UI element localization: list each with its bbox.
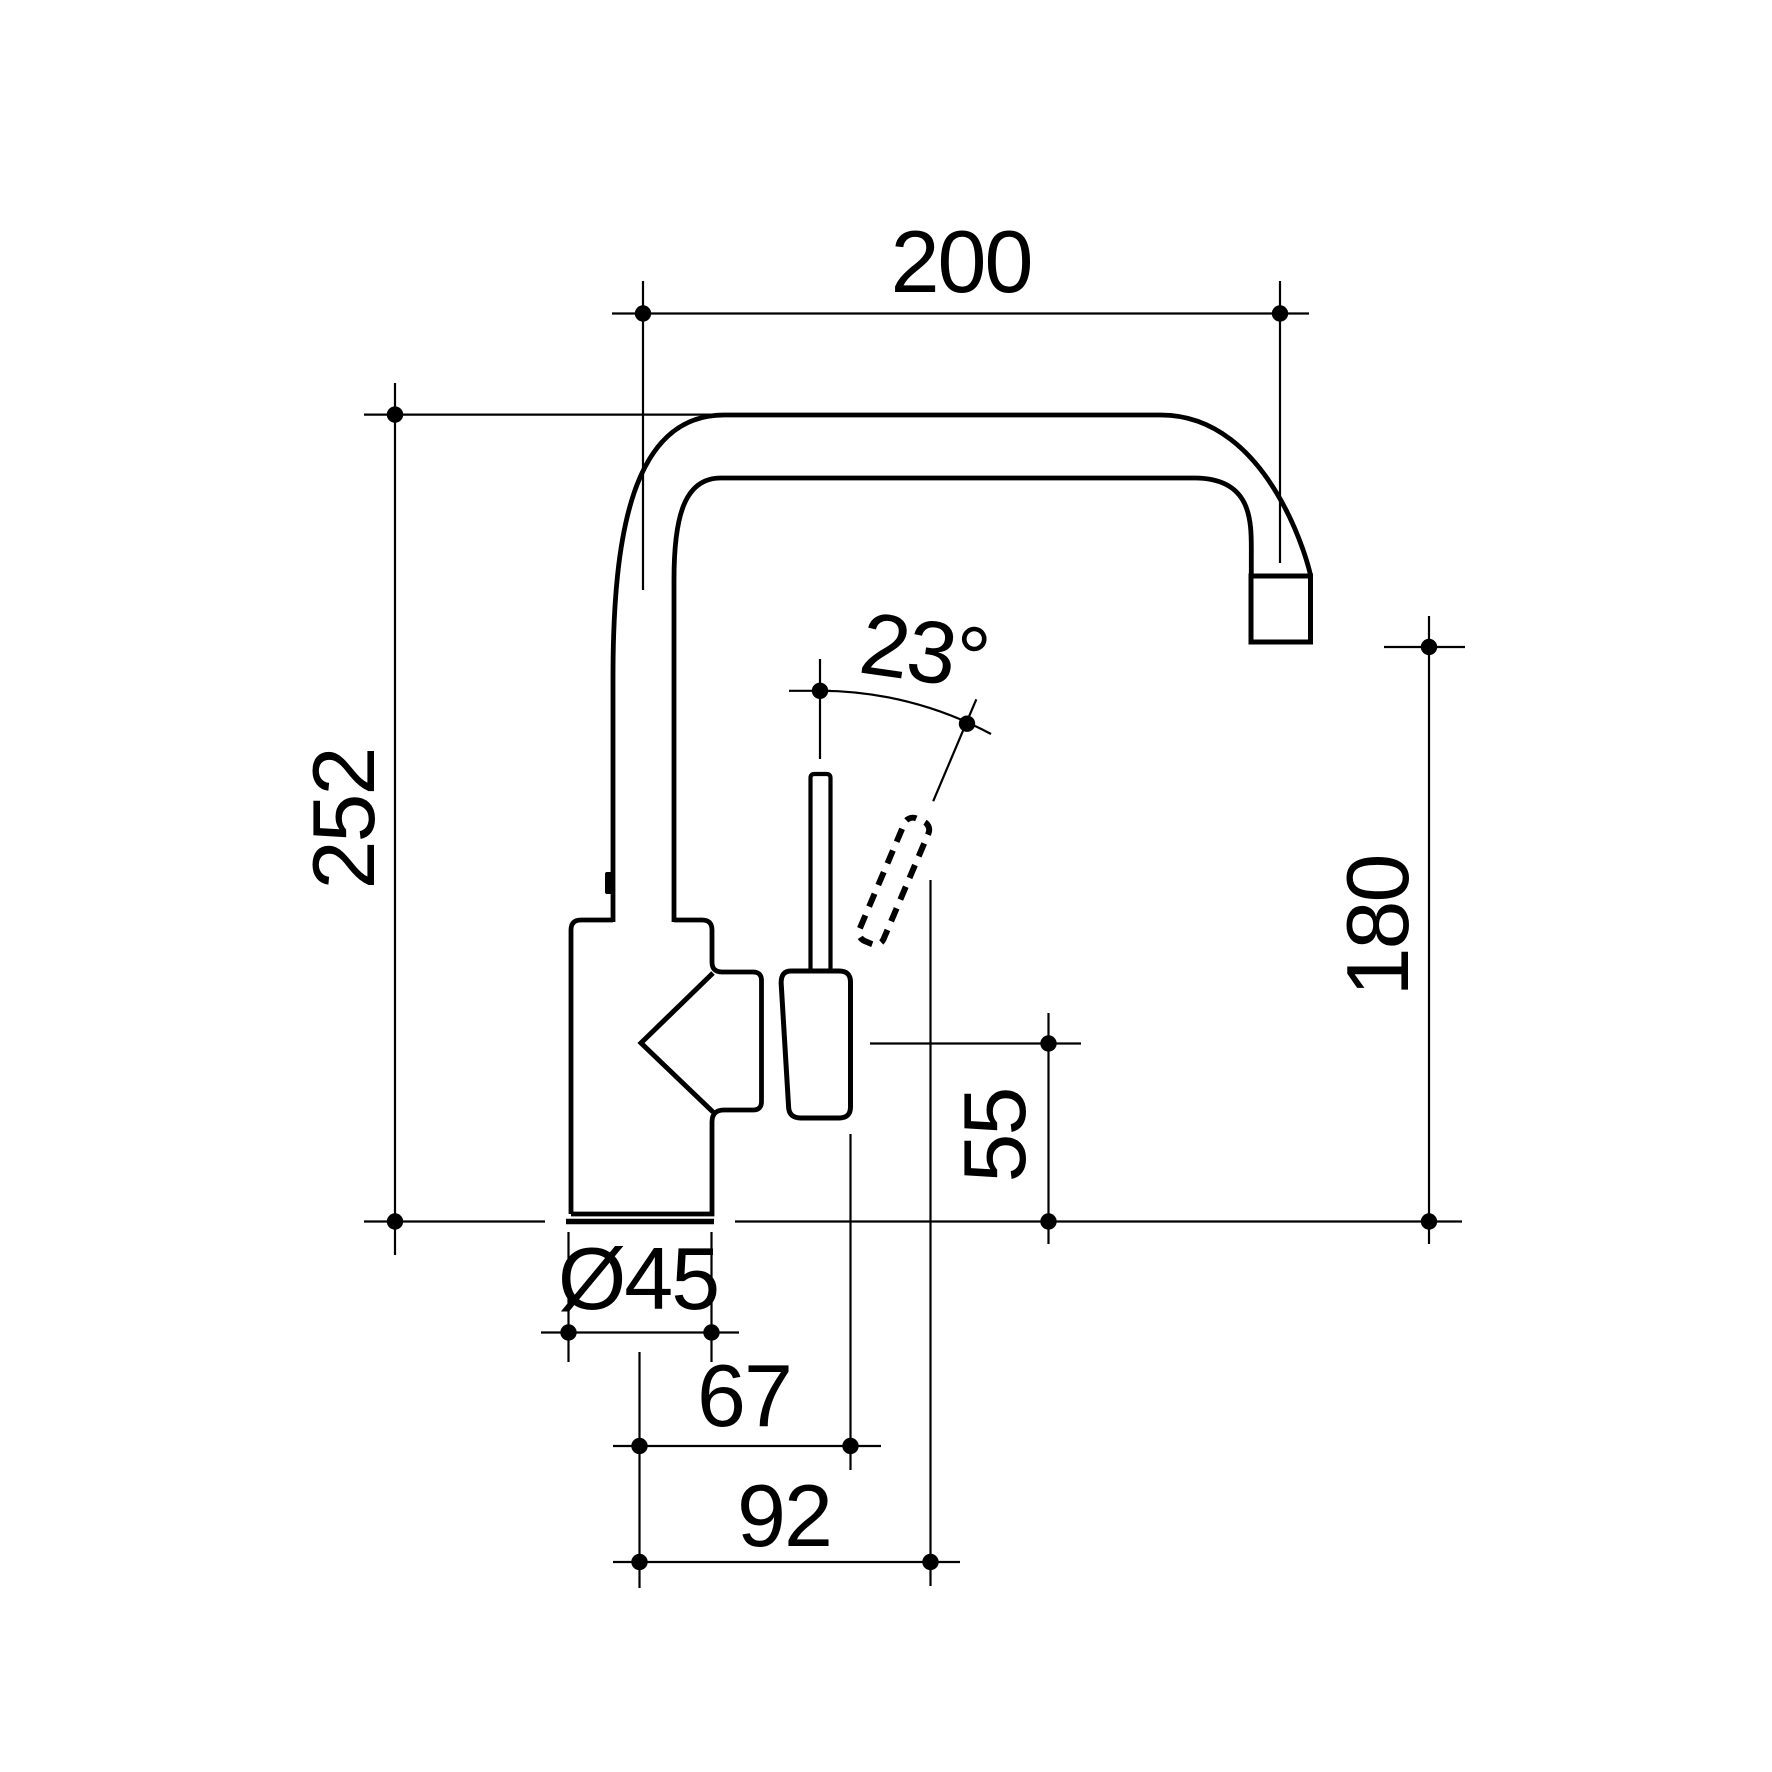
dot 55 bottom [1040,1213,1056,1229]
spout tube outer contour [613,415,1311,922]
angle 23 arc [820,691,991,734]
dot 252 bottom [387,1213,403,1229]
dim 200 right extension [1279,281,1281,563]
dim 252 line [394,383,396,1255]
dim 67/92 left extension (body axis) [638,1352,640,1588]
dim 92 line [613,1561,960,1563]
dot 92 right [922,1554,938,1570]
mixer body [571,920,762,1214]
dim 180 top tick [1384,646,1465,648]
svg-text:Ø45: Ø45 [558,1229,718,1328]
dot 200 left [635,305,651,321]
dot 92 left [631,1554,647,1570]
svg-text:55: 55 [945,1089,1044,1183]
svg-text:23°: 23° [854,593,994,709]
dim 92 right extension [929,880,931,1586]
chevron facet lines on body [641,973,713,1112]
svg-text:180: 180 [1328,856,1427,997]
dot 23 right [959,716,975,732]
angle 23 tilted extension [933,699,976,801]
dim D45 line [541,1331,739,1333]
dot 180 top [1421,639,1437,655]
dot 252 top [387,406,403,422]
lever (solid, upright) [811,774,831,971]
dot 180 bottom [1421,1213,1437,1229]
dot 200 right [1272,305,1288,321]
handle base [781,971,850,1118]
svg-text:252: 252 [294,749,393,890]
svg-text:200: 200 [891,212,1032,311]
dim 252 top tick [364,414,714,416]
svg-text:67: 67 [697,1346,791,1445]
baseline left segment [364,1220,545,1222]
baseline right segment [735,1220,1462,1222]
dim 55 line [1047,1013,1049,1244]
lever (dashed, tilted 23 deg) [856,815,932,948]
dot 55 top [1040,1035,1056,1051]
dot D45 left [560,1324,576,1340]
svg-text:92: 92 [737,1466,831,1565]
dim 67 line [613,1445,881,1447]
dim 200 line [612,312,1309,314]
swivel stop pin on spout tube [605,872,613,894]
spout outlet tip [1251,576,1311,642]
dot 23 left [812,683,828,699]
dot D45 right [703,1324,719,1340]
spout tube inner contour [674,478,1251,922]
angle 23 left tick [789,690,831,692]
dim 67 right extension (handle axis) [849,1134,851,1470]
dot 67 right [842,1438,858,1454]
angle 23 vertical extension above lever [819,659,821,759]
dot 67 left [631,1438,647,1454]
body base plate [566,1219,714,1225]
dim 55 top tick [870,1042,1081,1044]
dim D45 right extension [710,1232,712,1362]
dim 180 line [1428,616,1430,1244]
dim D45 left extension [567,1232,569,1362]
dim 200 left extension [642,281,644,590]
